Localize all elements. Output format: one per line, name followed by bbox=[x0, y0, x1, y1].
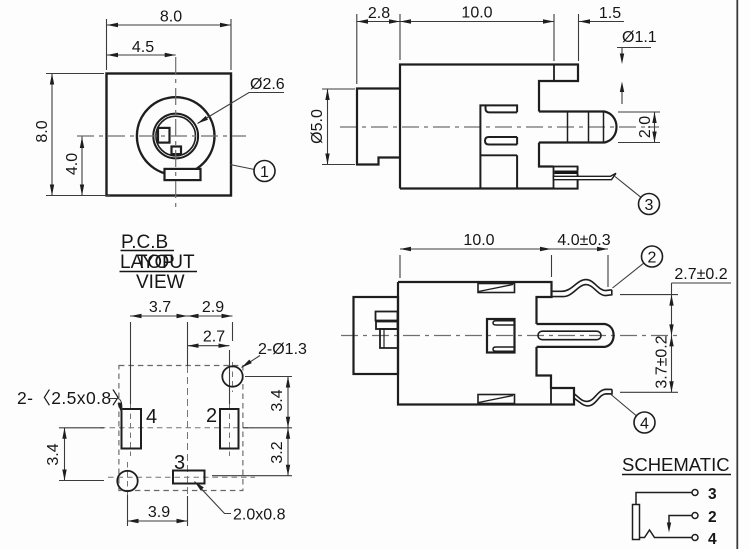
dimension 3.4 right line bbox=[287, 377, 289, 428]
side view 2 body outline bbox=[398, 282, 574, 405]
barrel (pin shroud) outline bbox=[539, 112, 617, 143]
callout 1 circle bbox=[254, 161, 275, 182]
wire pin3 to sleeve bbox=[636, 493, 692, 505]
bottom spring contact bbox=[574, 389, 612, 401]
barrel inner slot bbox=[538, 331, 601, 340]
svg-text:2: 2 bbox=[648, 250, 657, 267]
contact block divider line bbox=[480, 154, 517, 156]
pad 3 bbox=[173, 471, 205, 484]
contact notch rectangle left bbox=[158, 128, 170, 143]
svg-text:2.8: 2.8 bbox=[368, 5, 390, 22]
label 2-dia1.3 leader bbox=[242, 356, 261, 368]
svg-text:4: 4 bbox=[640, 416, 649, 433]
side view body outline bbox=[400, 65, 578, 189]
center contact clamp bbox=[487, 319, 515, 353]
callout 2 circle bbox=[642, 246, 663, 267]
dimension 3.9 extension lines bbox=[128, 495, 188, 526]
pin 4 terminal circle bbox=[692, 535, 698, 541]
wire pin4 with switch caret bbox=[640, 530, 693, 538]
svg-text:2: 2 bbox=[206, 405, 217, 427]
dimension 2.7 line bbox=[188, 345, 230, 347]
callout 3 circle bbox=[639, 194, 660, 215]
dimension 10.0 extension lines bbox=[400, 255, 608, 287]
callout 2 leader bbox=[613, 263, 644, 288]
dimension dia 5.0 line bbox=[327, 89, 329, 165]
center contact block bbox=[480, 105, 517, 188]
hole 1 centerline vertical bbox=[232, 322, 234, 341]
svg-text:2.7±0.2: 2.7±0.2 bbox=[674, 266, 727, 283]
sleeve inner bar B bbox=[376, 322, 398, 330]
svg-text:TOP: TOP bbox=[136, 252, 175, 273]
pad3 row centerline horizontal bbox=[108, 476, 255, 478]
dimension 3.4 right extension lines bbox=[243, 377, 292, 428]
svg-text:8.0: 8.0 bbox=[34, 120, 51, 142]
clamp bottom slot bbox=[493, 347, 515, 351]
svg-text:3: 3 bbox=[645, 197, 654, 214]
dimension 2.8/10.0 shared extension bbox=[400, 14, 579, 61]
jack ring inner (pin bore 2.6) bbox=[156, 116, 196, 156]
top pin divider bbox=[553, 65, 555, 82]
label dia 2.6 underline and leader bbox=[198, 93, 285, 124]
dimension 4.5: line bbox=[107, 54, 176, 56]
front view body square bbox=[107, 74, 232, 196]
svg-text:1.5: 1.5 bbox=[599, 5, 621, 22]
dimension 1.5 line with tail bbox=[579, 21, 624, 23]
front view vertical centerline bbox=[175, 57, 177, 211]
svg-text:4.5: 4.5 bbox=[132, 39, 154, 56]
dimension 8.0 left: line bbox=[51, 74, 53, 196]
contact notch rectangle bottom bbox=[172, 147, 182, 155]
svg-text:2-Ø1.3: 2-Ø1.3 bbox=[258, 341, 307, 358]
svg-text:VIEW: VIEW bbox=[136, 272, 185, 293]
side view 2 centerline bbox=[341, 335, 678, 337]
dimension 3.2 right line bbox=[287, 428, 289, 476]
dimension 2.0 line bbox=[654, 112, 656, 143]
svg-text:2.7: 2.7 bbox=[203, 329, 225, 346]
callout 3 leader bbox=[615, 177, 641, 198]
pad 2 centerline vertical bbox=[229, 350, 231, 404]
wire pin2 with arrow bbox=[669, 516, 692, 525]
sleeve contact bar bbox=[633, 505, 640, 540]
dimension 3.7+-0.2 line bbox=[671, 335, 673, 392]
hole 2 (dia 1.3 bottom left) bbox=[117, 471, 137, 491]
dimension 10.0 line bbox=[400, 21, 554, 23]
spring tip extension line bottom bbox=[620, 391, 678, 393]
dimension 2.8 line bbox=[357, 21, 400, 23]
label 2-(2.5x0.8) leader bbox=[108, 399, 122, 412]
svg-text:4.0±0.3: 4.0±0.3 bbox=[557, 232, 610, 249]
dimension 8.0 left: extension lines bbox=[46, 74, 110, 196]
svg-text:3.9: 3.9 bbox=[148, 504, 170, 521]
hole 1 (dia 1.3 top right) bbox=[222, 366, 242, 386]
label 2.0x0.8 leader bbox=[195, 482, 232, 514]
svg-text:SCHEMATIC: SCHEMATIC bbox=[622, 454, 730, 475]
barrel divider lines bbox=[568, 112, 604, 143]
svg-text:3: 3 bbox=[708, 486, 717, 503]
front sleeve protrusion left bbox=[357, 89, 400, 165]
svg-text:Ø2.6: Ø2.6 bbox=[250, 76, 285, 93]
drawing frame right border bbox=[736, 0, 738, 549]
dimension 3.2 extension line bottom bbox=[212, 475, 292, 477]
svg-text:10.0: 10.0 bbox=[463, 232, 494, 249]
svg-text:10.0: 10.0 bbox=[461, 5, 492, 22]
svg-text:3.4: 3.4 bbox=[45, 443, 62, 465]
pad 2 bbox=[220, 409, 239, 449]
jack outer circle bbox=[137, 97, 215, 175]
dimension 3.9 line bbox=[128, 520, 188, 522]
pin 3 terminal circle bbox=[692, 490, 698, 496]
hole 2 centerline vertical bbox=[127, 462, 129, 497]
pad 4 centerline vertical bbox=[130, 322, 132, 404]
dimension 2.8: extension line bbox=[356, 14, 358, 84]
front view horizontal centerline bbox=[77, 135, 246, 137]
bottom hatched notch bbox=[478, 395, 515, 404]
bottom terminal pin bbox=[554, 173, 617, 179]
top spring contact bbox=[552, 280, 612, 292]
bottom lug block bbox=[554, 167, 578, 189]
svg-text:3.2: 3.2 bbox=[269, 441, 286, 463]
callout 1 leader bbox=[230, 165, 255, 170]
svg-text:3.7±0.2: 3.7±0.2 bbox=[654, 335, 671, 388]
dimension 3.7 line bbox=[130, 315, 188, 317]
bottom lug divider bbox=[550, 388, 552, 405]
pin 2 terminal circle bbox=[692, 513, 698, 519]
top hatched notch bbox=[478, 284, 515, 293]
contact block lower tongue bbox=[485, 137, 517, 145]
dimension 8.0 top: extension lines bbox=[107, 19, 232, 70]
svg-text:3.4: 3.4 bbox=[269, 389, 286, 411]
dimension 4.0 left: line bbox=[81, 137, 83, 196]
svg-text:4: 4 bbox=[708, 531, 717, 548]
dimension dia 5.0 extension lines bbox=[322, 89, 355, 165]
sleeve inner box C bbox=[380, 329, 398, 348]
dimension 4.0+-0.3 line bbox=[551, 248, 608, 250]
front sleeve protrusion left bbox=[354, 297, 399, 374]
dimension 2.0 extension lines bbox=[618, 112, 660, 143]
callout 4 leader bbox=[611, 395, 636, 416]
bottom terminal thick bar bbox=[555, 171, 578, 175]
svg-text:2: 2 bbox=[708, 509, 717, 526]
contact block upper tongue bbox=[486, 105, 518, 112]
callout 4 circle bbox=[634, 412, 655, 433]
dimension 3.4 left line bbox=[64, 428, 66, 481]
clamp top slot bbox=[493, 321, 515, 325]
label dia 1.1 leader lines and arrows bbox=[617, 48, 651, 55]
vertical centerline long bbox=[187, 322, 189, 366]
side view centerline bbox=[340, 126, 659, 128]
svg-text:Ø1.1: Ø1.1 bbox=[622, 29, 657, 46]
dimension 2.9 line bbox=[188, 315, 233, 317]
pad 4 bbox=[122, 409, 142, 449]
dimension 3.4 left extension lines bbox=[59, 428, 104, 481]
svg-text:3.7: 3.7 bbox=[149, 299, 171, 316]
svg-text:8.0: 8.0 bbox=[160, 9, 182, 26]
svg-text:4: 4 bbox=[146, 406, 157, 428]
svg-text:Ø5.0: Ø5.0 bbox=[309, 109, 326, 144]
svg-text:1: 1 bbox=[260, 164, 269, 181]
dimension 8.0 top: line bbox=[107, 24, 232, 26]
dimension 10.0 line bbox=[400, 248, 551, 250]
sleeve inner bar A bbox=[376, 312, 398, 321]
pcb outline dashed box bbox=[119, 366, 243, 491]
svg-text:2.0x0.8: 2.0x0.8 bbox=[233, 507, 286, 524]
pads row centerline horizontal bbox=[100, 427, 253, 429]
svg-text:2.9: 2.9 bbox=[202, 299, 224, 316]
svg-text:2.0: 2.0 bbox=[637, 116, 654, 138]
svg-text:3: 3 bbox=[174, 452, 185, 474]
svg-text:4.0: 4.0 bbox=[64, 153, 81, 175]
bottom tab under circle bbox=[165, 169, 201, 180]
barrel outline bbox=[537, 324, 614, 347]
spring tip extension line top bbox=[620, 294, 678, 296]
jack ring outer bbox=[153, 114, 198, 159]
